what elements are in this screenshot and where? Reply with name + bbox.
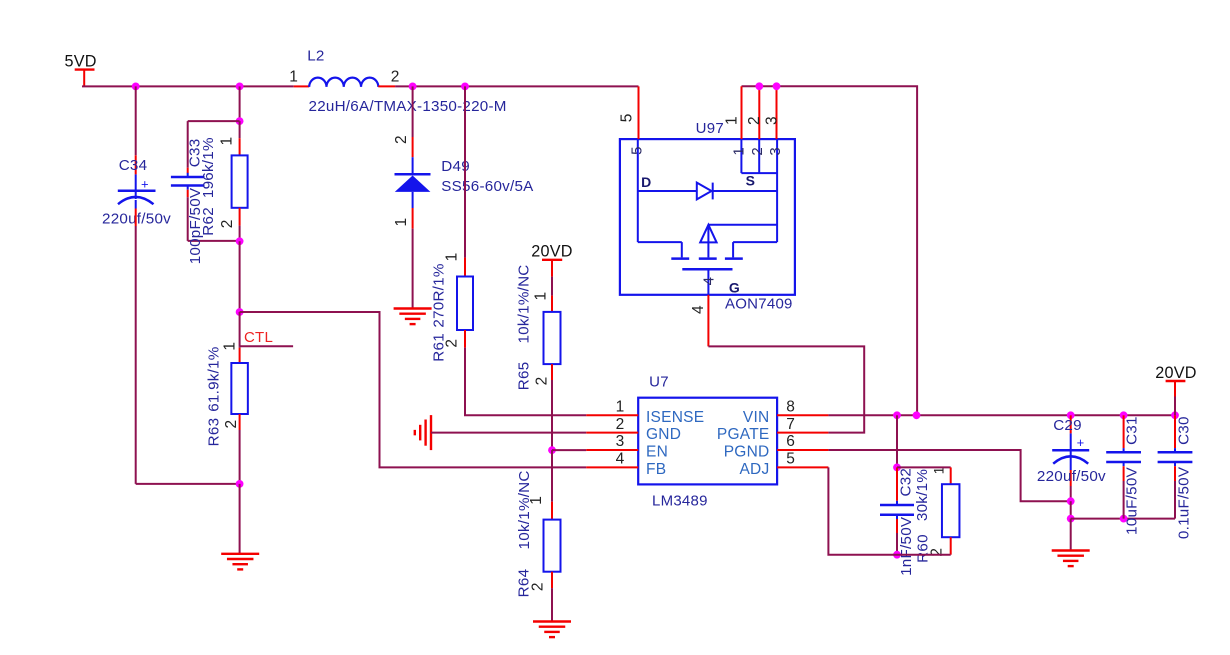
- svg-text:2: 2: [393, 135, 410, 144]
- label D49 pin 2: [393, 135, 410, 144]
- wire EN node to U7 EN pin: [552, 449, 586, 451]
- U7 pin 3 stub (EN): [586, 449, 638, 451]
- label R62 pin 1: [218, 137, 235, 146]
- svg-text:GND: GND: [646, 426, 681, 443]
- label D49 pin 1: [393, 218, 410, 227]
- U97 internal body diode: [638, 183, 777, 200]
- svg-text:10k/1%/NC: 10k/1%/NC: [515, 264, 532, 343]
- svg-text:1: 1: [218, 137, 235, 146]
- label C34 value 220uf/50v: [102, 211, 171, 228]
- junction FB node: [236, 308, 244, 316]
- svg-text:6: 6: [786, 433, 795, 450]
- label C34 reference: [119, 157, 148, 174]
- label C31 reference: [1123, 416, 1140, 445]
- transistor U97 AON7409 body box: [620, 139, 795, 295]
- wire rail to C33/R62 top node: [239, 86, 241, 121]
- junction C33/R62 tap: [236, 83, 244, 91]
- resistor R63: [231, 363, 248, 484]
- junction C32 bottom node: [893, 551, 901, 559]
- label L2 pin 1: [289, 69, 298, 86]
- label U7 pin number 3: [616, 433, 625, 450]
- label U7 pin number 1: [616, 399, 625, 416]
- svg-text:2: 2: [749, 147, 766, 156]
- svg-text:2: 2: [391, 69, 400, 86]
- U7 pin 7 stub (PGATE): [777, 432, 828, 434]
- svg-text:VIN: VIN: [743, 409, 770, 426]
- label U7 pin name PGND: [724, 444, 770, 461]
- label C34 plus sign: [141, 177, 149, 192]
- svg-text:7: 7: [786, 416, 795, 433]
- svg-text:PGATE: PGATE: [717, 426, 770, 443]
- label C29 reference: [1053, 417, 1082, 434]
- svg-text:20VD: 20VD: [531, 242, 573, 260]
- U97 pin 1 wire: [741, 86, 743, 139]
- label U7 pin number 6: [786, 433, 795, 450]
- wire R62 bottom to FB node: [239, 241, 241, 312]
- svg-text:ISENSE: ISENSE: [646, 409, 704, 426]
- svg-text:3: 3: [767, 147, 784, 156]
- U7 pin 2 stub (GND): [586, 432, 638, 434]
- label U97 reference: [696, 120, 724, 137]
- label U97 pin number 5 outside: [618, 113, 635, 122]
- wire to ground symbol: [1070, 519, 1072, 551]
- svg-text:FB: FB: [646, 461, 666, 478]
- label U97 D terminal: [641, 174, 651, 190]
- svg-text:D: D: [641, 174, 651, 190]
- capacitor C31: [1106, 415, 1141, 518]
- svg-text:2: 2: [746, 116, 763, 125]
- label R64 pin 2: [530, 582, 547, 591]
- label U7 pin number 8: [786, 399, 795, 416]
- U97 pin 5 wire from switch node: [638, 86, 640, 139]
- wire C33 parallel loop bottom: [188, 197, 240, 241]
- label L2 pin 2: [391, 69, 400, 86]
- svg-text:PGND: PGND: [724, 444, 770, 461]
- junction C29 bottom / PGND: [1067, 497, 1075, 505]
- label R61 value 270R/1%: [430, 263, 447, 327]
- svg-text:5: 5: [629, 146, 646, 155]
- svg-text:10k/1%/NC: 10k/1%/NC: [516, 470, 533, 549]
- svg-text:C29: C29: [1053, 417, 1082, 434]
- junction C33/R62 top node: [236, 117, 244, 125]
- junction VIN/C31 tap: [1120, 411, 1128, 419]
- svg-text:CTL: CTL: [244, 329, 273, 346]
- svg-text:R64: R64: [516, 569, 533, 598]
- label C30 value 0.1uF/50V: [1175, 466, 1192, 539]
- svg-text:196k/1%: 196k/1%: [200, 137, 217, 198]
- svg-text:L2: L2: [307, 47, 324, 64]
- svg-text:R62: R62: [200, 207, 217, 236]
- U97 internal drain lead pin5: [637, 139, 639, 191]
- label C32 value 1nF/50V: [898, 516, 915, 576]
- capacitor C33: [171, 168, 205, 198]
- label R65 pin 1: [533, 292, 550, 301]
- capacitor C34 (polarized 220uf/50v): [118, 174, 156, 208]
- svg-text:1: 1: [723, 116, 740, 125]
- label C31 value 10uF/50V: [1123, 466, 1140, 534]
- label R60 pin 1: [931, 466, 947, 474]
- junction U97 pin3 tap: [773, 82, 781, 90]
- svg-text:4: 4: [701, 277, 718, 286]
- ground below R64: [533, 622, 571, 638]
- power symbol 20VD (R65): [531, 242, 573, 312]
- svg-text:1: 1: [289, 69, 298, 86]
- junction R61 tap: [461, 83, 469, 91]
- wire CTL stub: [240, 345, 294, 347]
- resistor R61: [457, 277, 473, 348]
- svg-text:1nF/50V: 1nF/50V: [898, 516, 915, 576]
- wire C33 parallel loop top: [188, 121, 240, 168]
- label U97 pin number 4 outside: [690, 305, 707, 314]
- label U97 S terminal: [746, 173, 756, 189]
- label R62 value 196k/1%: [200, 137, 217, 198]
- label R60 pin 2: [929, 548, 946, 557]
- junction VIN/C30 tap: [1171, 411, 1179, 419]
- U7 pin 1 stub (ISENSE): [586, 414, 638, 416]
- inductor L2: [294, 78, 395, 87]
- label U7 pin name ADJ: [739, 461, 769, 478]
- svg-text:5: 5: [618, 113, 635, 122]
- label U7 reference: [649, 374, 669, 391]
- wire U97 source rail to VIN node: [742, 86, 918, 415]
- label C33 value 100pF/50V: [187, 187, 204, 264]
- label U97 pin number 3 outside: [763, 116, 780, 125]
- junction VIN/C32 tap: [893, 411, 901, 419]
- label U97 part number AON7409: [725, 296, 793, 313]
- label R61 reference: [430, 333, 447, 362]
- wire R61 to U7 ISENSE pin: [465, 348, 586, 416]
- ground left of U7 (GND pin): [415, 415, 431, 450]
- wire switch node to R61: [464, 86, 466, 276]
- svg-text:R61: R61: [430, 333, 447, 362]
- svg-text:10uF/50V: 10uF/50V: [1123, 466, 1140, 534]
- label R61 pin 2: [443, 339, 460, 348]
- label D49 value SS56-60v/5A: [441, 178, 534, 195]
- label C29 plus sign: [1077, 435, 1085, 450]
- label D49 reference: [441, 158, 470, 175]
- svg-text:R60: R60: [914, 534, 931, 563]
- svg-text:S: S: [746, 173, 756, 189]
- svg-text:C32: C32: [897, 468, 914, 497]
- wire U7 PGND to C29 bottom: [828, 450, 1070, 501]
- ground below C29: [1052, 551, 1090, 567]
- wire ADJ to C32/R60 bottom: [828, 467, 950, 554]
- wire ground to U7 GND pin: [431, 432, 586, 434]
- label C29 value 220uf/50v: [1037, 468, 1106, 485]
- svg-text:1: 1: [616, 399, 625, 416]
- junction U97 pin2 tap: [755, 82, 763, 90]
- wire C29 bottom node to ground rail: [1070, 501, 1072, 518]
- label R62 pin 2: [219, 219, 236, 228]
- capacitor C30: [1158, 415, 1193, 518]
- svg-text:G: G: [729, 279, 740, 295]
- svg-text:270R/1%: 270R/1%: [430, 263, 447, 327]
- wire C34 bottom to ground rail: [136, 209, 240, 484]
- svg-text:2: 2: [219, 219, 236, 228]
- svg-text:20VD: 20VD: [1155, 364, 1197, 382]
- label R63 pin 1: [221, 342, 238, 351]
- label U7 pin name FB: [646, 461, 666, 478]
- label L2 value 22uH/6A/TMAX-1350-220-M: [309, 98, 507, 115]
- capacitor C32: [880, 467, 914, 554]
- svg-text:8: 8: [786, 399, 795, 416]
- junction ground rail left: [1067, 515, 1075, 523]
- wire FB node to R63: [239, 312, 241, 363]
- label U7 pin name VIN: [743, 409, 770, 426]
- ground below R63: [221, 554, 259, 570]
- junction C32 top node: [893, 464, 901, 472]
- label U7 pin name GND: [646, 426, 681, 443]
- svg-text:61.9k/1%: 61.9k/1%: [206, 346, 223, 411]
- svg-text:1: 1: [443, 252, 460, 261]
- svg-text:1: 1: [731, 147, 748, 156]
- svg-text:U97: U97: [696, 120, 724, 137]
- wire VIN to C32 node: [896, 415, 898, 467]
- svg-text:5VD: 5VD: [64, 53, 96, 71]
- wire VIN rail: [828, 414, 1175, 416]
- U97 pin 3 wire: [776, 86, 778, 139]
- U7 pin 4 stub (FB): [586, 466, 638, 468]
- svg-text:1: 1: [221, 342, 238, 351]
- svg-text:1: 1: [533, 292, 550, 301]
- svg-text:5: 5: [786, 451, 795, 468]
- wire 5VD to C34: [135, 86, 137, 174]
- wire L2 pin2 to U97 pin5 (switch node): [395, 85, 638, 87]
- wire U97 gate to U7 PGATE: [708, 346, 864, 432]
- label U7 pin number 7: [786, 416, 795, 433]
- junction C33/R62 bottom node: [236, 237, 244, 245]
- U97 internal source bracket pins 1-3: [741, 139, 777, 191]
- label C33 reference: [186, 139, 203, 168]
- svg-text:1: 1: [393, 218, 410, 227]
- label U7 pin number 5: [786, 451, 795, 468]
- capacitor C29 (polarized 220uf/50v): [1052, 415, 1089, 501]
- label U97 G terminal: [729, 279, 740, 295]
- wire D49 anode to ground: [412, 208, 414, 309]
- resistor R65: [544, 312, 561, 450]
- label R64 reference: [516, 569, 533, 598]
- label U97 pin number 2 outside: [746, 116, 763, 125]
- junction C34 tap: [132, 83, 140, 91]
- svg-text:C30: C30: [1175, 416, 1192, 445]
- svg-text:4: 4: [690, 305, 707, 314]
- junction D49 tap: [409, 83, 417, 91]
- svg-text:0.1uF/50V: 0.1uF/50V: [1175, 466, 1192, 539]
- label U97 pin number 2 inside: [749, 147, 766, 156]
- label R61 pin 1: [443, 252, 460, 261]
- label L2 reference: [307, 47, 324, 64]
- junction EN node: [548, 446, 556, 454]
- op-amp/regulator U7 LM3489 body: [638, 398, 777, 485]
- label U97 pin number 1 outside: [723, 116, 740, 125]
- svg-text:+: +: [1077, 435, 1085, 450]
- resistor R60: [942, 484, 960, 555]
- label U7 pin number 2: [616, 416, 625, 433]
- svg-text:4: 4: [616, 451, 625, 468]
- label R60 value 30k/1%: [914, 469, 931, 521]
- diode D49 (cathode bar + triangle): [395, 157, 431, 208]
- junction VIN/C29 tap: [1067, 411, 1075, 419]
- svg-text:R63: R63: [206, 418, 223, 447]
- U97 pin 2 wire: [758, 86, 760, 139]
- U97 internal mosfet glyph: [638, 191, 777, 295]
- label R64 pin 1: [528, 496, 545, 505]
- U7 pin 8 stub (VIN): [777, 414, 828, 416]
- svg-text:3: 3: [763, 116, 780, 125]
- wire switch node to D49: [412, 86, 414, 157]
- svg-text:ADJ: ADJ: [739, 461, 769, 478]
- U7 pin 6 stub (PGND): [777, 449, 828, 451]
- svg-text:30k/1%: 30k/1%: [914, 469, 931, 521]
- label U97 pin number 1 inside: [731, 147, 748, 156]
- label C30 reference: [1175, 416, 1192, 445]
- label R63 value 61.9k/1%: [206, 346, 223, 411]
- label R62 reference: [200, 207, 217, 236]
- svg-text:2: 2: [616, 416, 625, 433]
- label U97 pin number 4 inside: [701, 277, 718, 286]
- svg-text:EN: EN: [646, 444, 668, 461]
- svg-text:SS56-60v/5A: SS56-60v/5A: [441, 178, 534, 195]
- svg-text:+: +: [141, 177, 149, 192]
- label R60 reference: [914, 534, 931, 563]
- power symbol 20VD (output): [1155, 364, 1197, 415]
- resistor R64: [544, 520, 561, 622]
- junction ground rail C31: [1120, 515, 1128, 523]
- wire EN node to R64: [551, 450, 553, 519]
- U7 pin 5 stub (ADJ): [777, 466, 828, 468]
- wire FB node to U7 FB pin: [240, 312, 587, 467]
- label U7 pin name PGATE: [717, 426, 770, 443]
- label R63 pin 2: [223, 420, 240, 429]
- label U7 pin name ISENSE: [646, 409, 704, 426]
- label U97 pin number 3 inside: [767, 147, 784, 156]
- svg-text:220uf/50v: 220uf/50v: [1037, 468, 1106, 485]
- wire C32 node to R60: [897, 467, 951, 484]
- label R65 reference: [515, 362, 532, 391]
- label R63 reference: [206, 418, 223, 447]
- svg-text:AON7409: AON7409: [725, 296, 793, 313]
- label U7 pin name EN: [646, 444, 668, 461]
- svg-text:2: 2: [223, 420, 240, 429]
- resistor R62: [232, 121, 248, 241]
- U97 pin 4 stub: [707, 295, 709, 347]
- svg-text:U7: U7: [649, 374, 669, 391]
- svg-text:22uH/6A/TMAX-1350-220-M: 22uH/6A/TMAX-1350-220-M: [309, 98, 507, 115]
- svg-text:C31: C31: [1123, 416, 1140, 445]
- svg-text:2: 2: [534, 376, 551, 385]
- svg-text:R65: R65: [515, 362, 532, 391]
- wire output ground rail: [1071, 518, 1175, 520]
- svg-text:C34: C34: [119, 157, 148, 174]
- power symbol 5VD: [64, 53, 96, 87]
- wire R63 to ground: [239, 484, 241, 554]
- net label CTL: [244, 329, 273, 346]
- label U97 pin number 5 inside: [629, 146, 646, 155]
- label U7 part number LM3489: [652, 492, 708, 509]
- label R64 value 10k/1%/NC: [516, 470, 533, 549]
- label R65 value 10k/1%/NC: [515, 264, 532, 343]
- ground below D49: [394, 309, 432, 325]
- svg-text:LM3489: LM3489: [652, 492, 708, 509]
- label U7 pin number 4: [616, 451, 625, 468]
- junction R63 bottom / C34 rail: [236, 480, 244, 488]
- junction VIN/source drop: [913, 411, 921, 419]
- label C32 reference: [897, 468, 914, 497]
- svg-text:3: 3: [616, 433, 625, 450]
- wire 5VD rail (y=86) from 5VD to L2 pin1: [82, 85, 294, 87]
- label R65 pin 2: [534, 376, 551, 385]
